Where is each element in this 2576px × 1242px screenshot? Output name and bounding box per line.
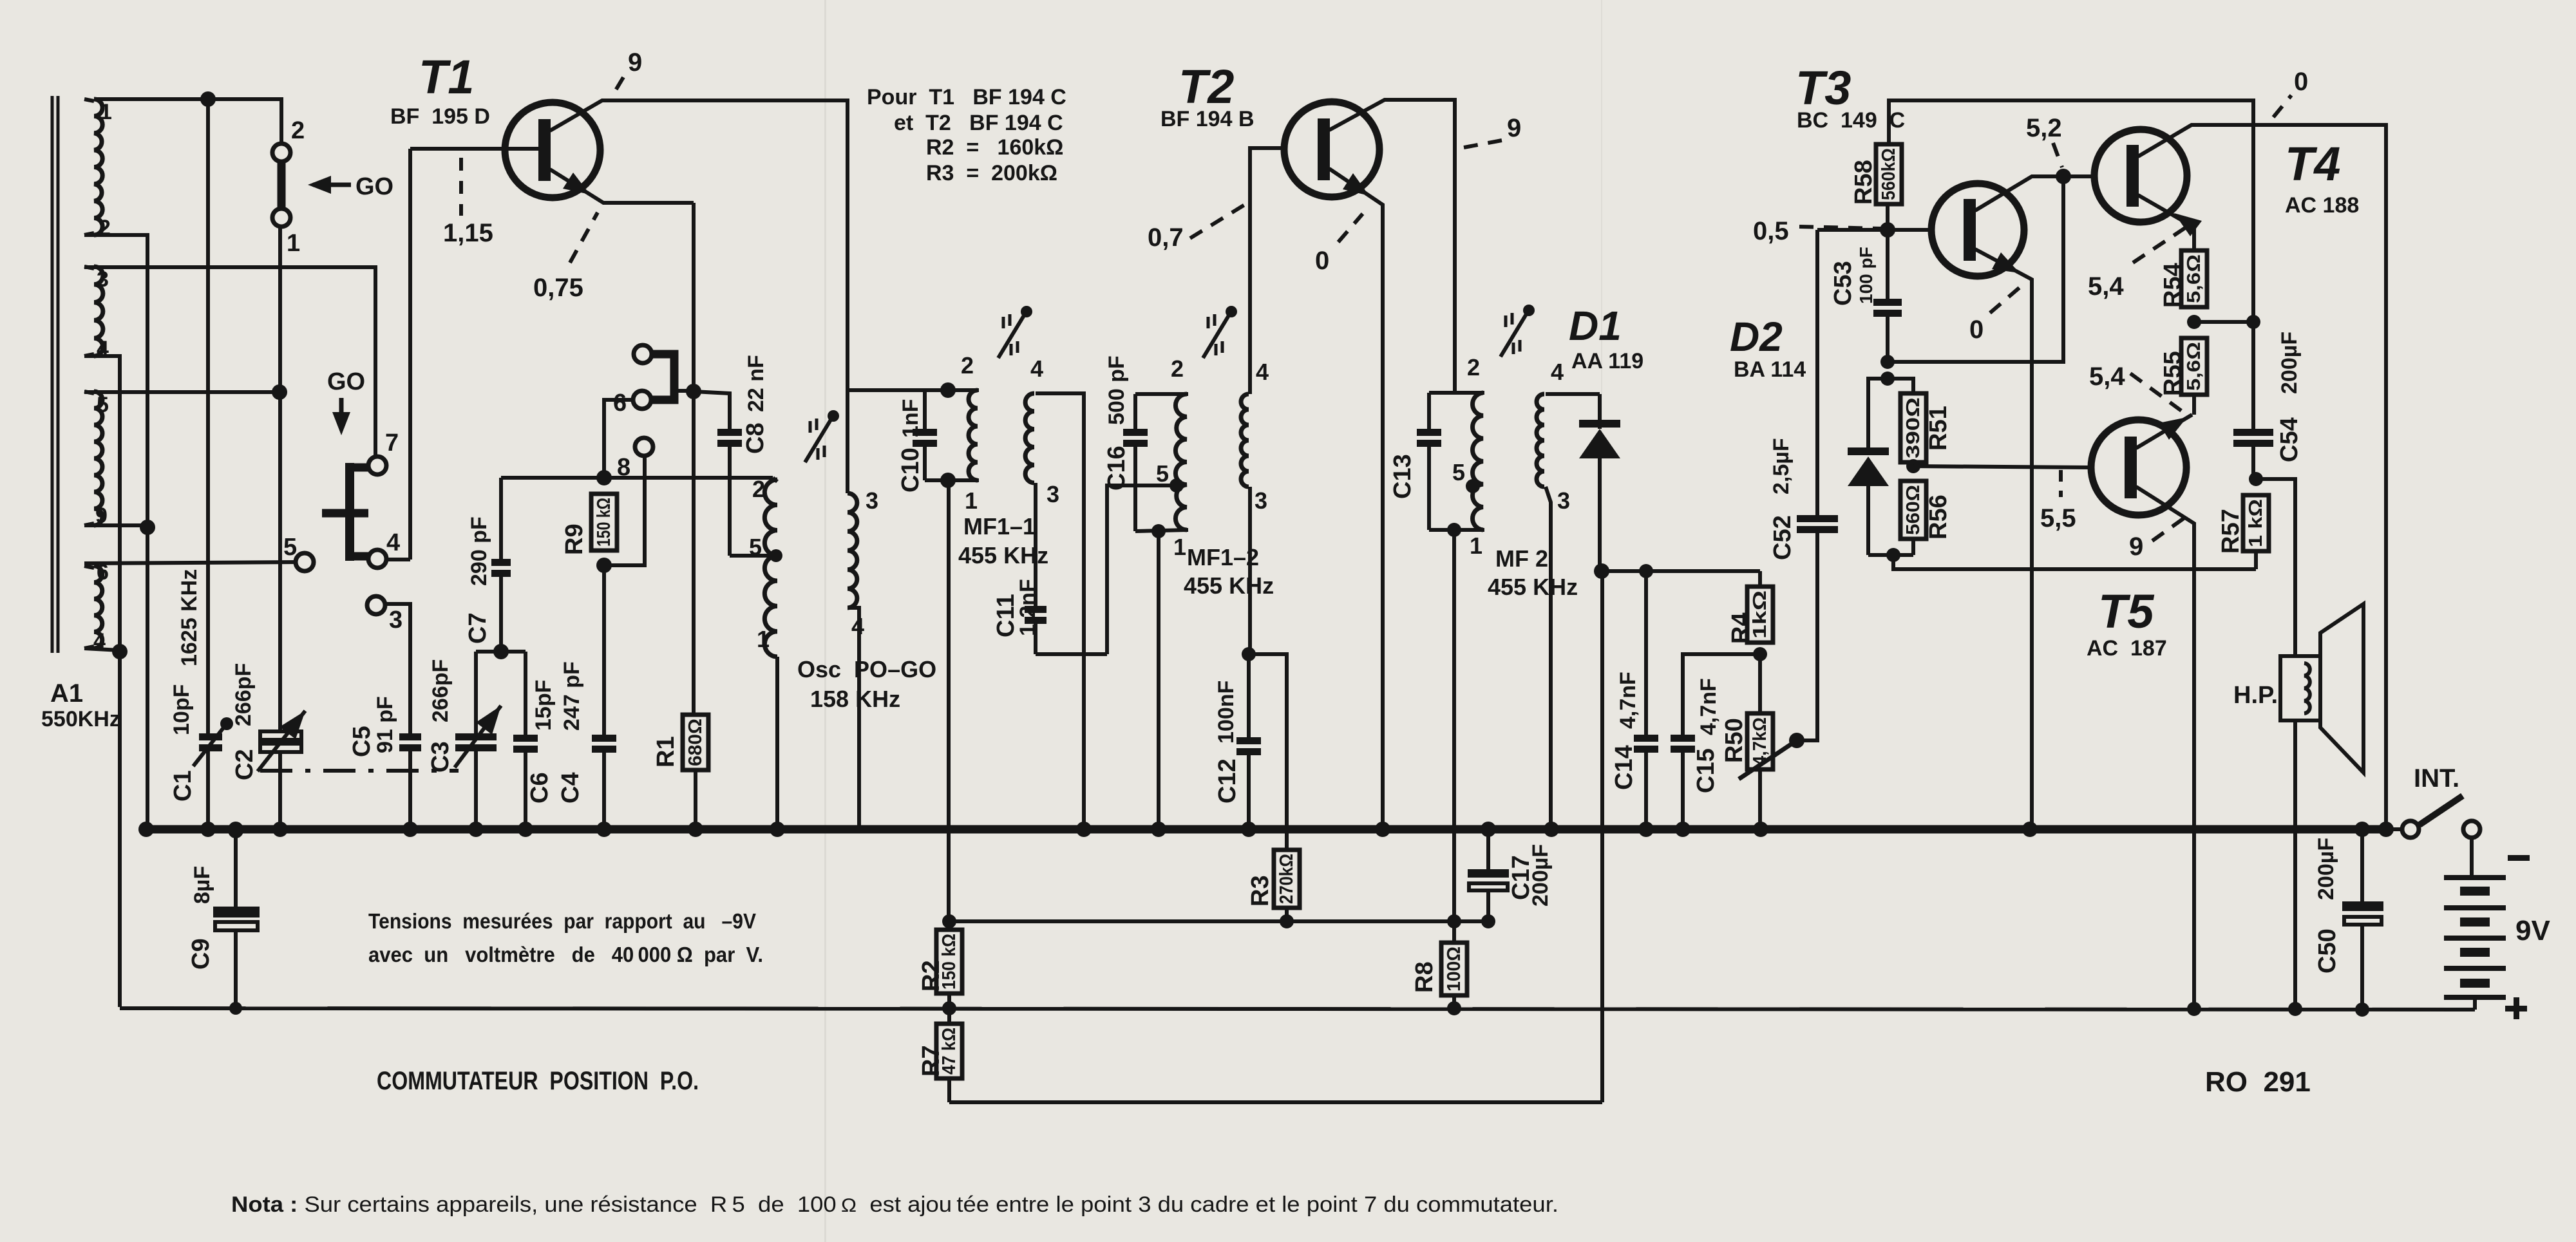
T5 collector wire [2136, 487, 2194, 1008]
wire osc sec bottom [848, 608, 859, 829]
wire coil5-top to node [84, 390, 279, 394]
wire R58 top rail [1889, 100, 2253, 429]
svg-text:5,4: 5,4 [2088, 272, 2124, 301]
svg-text:Tensions mesurées par rappo: Tensions mesurées par rapport au –9V [368, 909, 756, 933]
battery minus sign [2508, 855, 2530, 861]
node pin5wire-C2line [272, 384, 287, 400]
wire R7 bottom [947, 1078, 951, 1102]
resistor R51 [1900, 393, 1926, 462]
T2 emitter arrow [1343, 173, 1369, 196]
svg-text:R7: R7 [918, 1045, 945, 1077]
switch contact 7 [368, 456, 386, 475]
wire contact4 to T1 base line [386, 558, 410, 561]
bus dot C4 [596, 822, 612, 837]
node D1 bottom [1594, 563, 1609, 579]
transformer MF1_1 primary [969, 390, 978, 480]
node C17 bottom [1481, 914, 1495, 928]
wire rail to MF1_1 top [848, 388, 979, 392]
svg-text:C50: C50 [2314, 928, 2341, 974]
node D2 top link [1880, 372, 1895, 386]
node MF2 pin1 [1447, 523, 1461, 537]
svg-text:270kΩ: 270kΩ [1276, 854, 1297, 904]
capacitor C54 [2233, 429, 2273, 436]
bus dot C2 [272, 822, 288, 837]
wire mid to C54 rail [2194, 320, 2253, 324]
svg-text:266pF: 266pF [231, 663, 256, 726]
wire coil1-bottom down [84, 235, 147, 527]
battery 9V cells [2444, 875, 2506, 880]
svg-text:MF 2: MF 2 [1495, 545, 1548, 572]
node R2 top [942, 914, 956, 928]
svg-text:C2: C2 [231, 749, 258, 780]
resistor R55 [2181, 338, 2207, 395]
rail T3-T4 top [1886, 204, 1889, 230]
wire R8 bottom [1452, 995, 1456, 1008]
capacitor C2 plates [260, 731, 301, 740]
antenna A1 bar [51, 96, 54, 653]
transistor T2 [1284, 102, 1379, 197]
capacitor C16 [1133, 394, 1137, 429]
wire C6 to bus [524, 752, 527, 829]
node C9 bus [228, 823, 243, 838]
osc secondary coil [848, 493, 857, 608]
wire T5 base [1913, 466, 2091, 467]
svg-text:6: 6 [613, 390, 627, 417]
MF2 adjust symbol [1501, 314, 1526, 357]
svg-text:R1: R1 [652, 736, 679, 767]
wire MF1_1 sec bottom to C11 [1034, 483, 1037, 606]
svg-text:C3: C3 [427, 741, 454, 773]
svg-text:5,4: 5,4 [2089, 362, 2125, 391]
wire C14 bus [1644, 752, 1648, 829]
svg-text:150 kΩ: 150 kΩ [594, 498, 614, 547]
wire C53 [1886, 230, 1889, 299]
wire node down to bus end [146, 527, 149, 827]
transistor T1 [505, 102, 600, 198]
node R8 top [1447, 914, 1461, 928]
svg-text:4,7nF: 4,7nF [1616, 672, 1640, 729]
bus dot R1 [688, 822, 703, 837]
node T5 coll bottom [2187, 1002, 2201, 1016]
wire osc tap to C8 [730, 554, 776, 558]
svg-text:GO: GO [355, 173, 393, 200]
MF1_1 adjust symbol [998, 315, 1024, 358]
wire bracket to emitter node [674, 389, 694, 393]
T2 emitter wire [1329, 169, 1383, 829]
wire MF2 bottom [1429, 528, 1484, 532]
wire C12 to bus [1247, 755, 1251, 829]
bus dot C11 [1076, 822, 1092, 837]
svg-text:5,2: 5,2 [2026, 114, 2062, 142]
svg-text:T5: T5 [2098, 585, 2155, 638]
wire C14 [1644, 571, 1648, 735]
node T3 base [1880, 222, 1895, 238]
bus rail -9V [145, 825, 2391, 834]
node C54 rail [2246, 315, 2260, 329]
capacitor C52 [1797, 515, 1838, 522]
svg-text:290 pF: 290 pF [467, 516, 491, 586]
resistor R56 [1900, 481, 1926, 539]
wire MF2 pin1 down [1452, 530, 1456, 921]
svg-text:R57: R57 [2217, 509, 2244, 554]
transformer MF1_1 secondary [1025, 393, 1034, 483]
T1 base wire [410, 147, 538, 151]
transistor T5 [2091, 420, 2186, 515]
node R54-R55 [2187, 315, 2201, 329]
svg-text:8µF: 8µF [190, 866, 214, 904]
svg-text:247 pF: 247 pF [560, 661, 584, 731]
svg-text:C14: C14 [1611, 745, 1638, 790]
wire T1 emitter down [692, 203, 696, 715]
switch contact 1 [272, 209, 290, 227]
svg-text:T1: T1 [419, 50, 474, 104]
node R9 bottom [596, 558, 612, 573]
svg-text:4: 4 [386, 529, 400, 556]
capacitor C4 [592, 735, 616, 742]
svg-text:266pF: 266pF [428, 659, 453, 722]
svg-text:C9: C9 [187, 938, 214, 970]
svg-text:R58: R58 [1850, 160, 1877, 205]
wire C15 bus [1681, 752, 1685, 829]
svg-text:4: 4 [1256, 359, 1269, 385]
wire C5 to bus [408, 751, 412, 829]
svg-text:200µF: 200µF [1528, 844, 1553, 907]
T3 base wire [1888, 228, 1933, 232]
wire R4 top [1758, 571, 1762, 587]
svg-text:15pF: 15pF [531, 680, 556, 731]
node R51-R56 [1906, 459, 1920, 473]
wire C15 jog [1683, 654, 1760, 735]
wire R2-R7 [947, 993, 951, 1024]
wire R3 bottom [1285, 908, 1289, 921]
bus end left [138, 822, 154, 837]
svg-text:Nota : Sur certains appareils,: Nota : Sur certains appareils, une résis… [231, 1192, 1558, 1217]
T1 emitter wire [550, 169, 694, 203]
coupling dash-dot line [260, 769, 459, 773]
osc primary coil [764, 480, 777, 657]
node pin6line-joins [596, 470, 612, 485]
bus dot MF2 sec [1544, 822, 1559, 837]
resistor R50 pot [1747, 713, 1773, 769]
T4 emitter wire [2138, 195, 2194, 250]
svg-text:et T2 BF 194 C: et T2 BF 194 C [894, 111, 1063, 135]
GO arrow left [313, 183, 351, 187]
MF1_2 adjust symbol [1203, 315, 1229, 358]
capacitor C10 [923, 390, 927, 429]
wire C3 to bus [474, 751, 478, 829]
T3 emitter arrow [1992, 252, 2020, 273]
bus dot C6 [518, 822, 533, 837]
wire coil4b to node [84, 648, 120, 650]
svg-text:200µF: 200µF [2314, 838, 2338, 900]
svg-text:1: 1 [100, 100, 112, 124]
svg-text:R2 = 160kΩ: R2 = 160kΩ [926, 135, 1063, 160]
svg-text:BF 195 D: BF 195 D [390, 104, 490, 129]
switch INT contact [2402, 821, 2419, 838]
svg-text:3: 3 [1557, 487, 1570, 514]
switch INT lever [2420, 796, 2463, 825]
wire C1 branch vertical [206, 99, 210, 733]
wire AGC to R7 [949, 1100, 1602, 1104]
svg-text:560Ω: 560Ω [1903, 485, 1924, 535]
bus dot R50 [1753, 822, 1768, 837]
svg-text:D1: D1 [1569, 303, 1622, 349]
svg-text:7: 7 [385, 429, 399, 456]
capacitor C53 [1873, 299, 1902, 306]
svg-text:0: 0 [2294, 68, 2308, 96]
svg-text:455 KHz: 455 KHz [1488, 574, 1578, 600]
svg-text:5: 5 [1156, 460, 1169, 487]
wire out to speaker [2256, 479, 2295, 656]
svg-text:100 pF: 100 pF [1856, 247, 1876, 304]
wire T2 base [1250, 148, 1284, 394]
node MF1_2 pin5 [1170, 478, 1184, 493]
resistor R9 [591, 494, 617, 550]
svg-text:D2: D2 [1730, 314, 1783, 360]
wire osc pin1 to bus [775, 657, 779, 829]
transistor T4 [2094, 129, 2187, 222]
svg-text:T4: T4 [2285, 137, 2340, 191]
wire R50 bottom to bus [1758, 769, 1762, 829]
node R3 bottom [1280, 914, 1294, 928]
svg-text:500 pF: 500 pF [1104, 355, 1129, 425]
capacitor C1 [199, 733, 222, 740]
wire volume AGC down [1600, 571, 1604, 1102]
svg-text:9: 9 [1507, 114, 1521, 142]
svg-text:C16: C16 [1103, 446, 1130, 491]
svg-text:0,5: 0,5 [1753, 217, 1789, 245]
wire R9 down to C4 [602, 565, 606, 735]
svg-text:4,7nF: 4,7nF [1696, 678, 1721, 735]
transformer MF2 secondary [1537, 394, 1544, 487]
node speaker bottom [2288, 1002, 2302, 1016]
svg-text:5,5: 5,5 [2040, 504, 2076, 532]
svg-text:5: 5 [97, 393, 109, 417]
svg-text:1,15: 1,15 [443, 219, 493, 247]
switch bracket 6 [652, 354, 674, 400]
node C9 bottom [229, 1002, 242, 1015]
wire B emitter rail [1893, 555, 2256, 569]
wire C2 branch vertical [278, 227, 282, 733]
node R50 wiper [1789, 733, 1804, 748]
svg-text:T3: T3 [1795, 61, 1851, 115]
svg-text:9: 9 [2129, 532, 2143, 561]
capacitor C7 [491, 559, 511, 566]
wire C10bot-R2 [947, 921, 951, 930]
node R2-R7 [942, 1001, 956, 1015]
svg-text:Pour T1 BF 194 C: Pour T1 BF 194 C [867, 85, 1066, 109]
wire T1 base vertical [408, 149, 412, 560]
node T4 base [2056, 169, 2071, 184]
node MF1_1 top [940, 382, 956, 398]
capacitor C17 [1486, 829, 1490, 869]
T3 emitter wire [1975, 249, 2032, 829]
node C50 bottom [2355, 1002, 2369, 1017]
svg-text:C12: C12 [1214, 758, 1241, 804]
wire node to R3 [1249, 654, 1287, 850]
svg-text:1: 1 [287, 230, 300, 257]
svg-text:C10: C10 [897, 447, 924, 493]
svg-text:R55: R55 [2159, 351, 2186, 396]
wire pin8-C7-osc horizontal [501, 476, 773, 480]
wire T3 base left to C52 [1817, 228, 1888, 232]
svg-text:3: 3 [1046, 481, 1059, 507]
svg-text:22 nF: 22 nF [744, 355, 768, 412]
svg-text:1: 1 [1470, 532, 1482, 559]
resistor R1 [683, 715, 708, 770]
svg-text:AC 187: AC 187 [2087, 636, 2167, 661]
svg-text:BA 114: BA 114 [1734, 357, 1806, 382]
battery top contact [2463, 821, 2480, 838]
resistor R2 [936, 930, 962, 993]
wire R4-R50 [1758, 654, 1762, 713]
wire MF1_2 sec bottom [1248, 487, 1252, 654]
capacitor C3 arrow [455, 706, 501, 767]
svg-text:3: 3 [389, 607, 402, 634]
svg-text:C1: C1 [169, 770, 196, 802]
switch contact 3 [367, 596, 385, 614]
svg-text:0: 0 [1969, 315, 1984, 344]
svg-text:A1: A1 [50, 679, 83, 708]
wire MF1_2 pin1 to bus [1157, 531, 1160, 829]
node MF2 pin5 [1466, 479, 1480, 493]
wire +9V bottom [120, 1008, 2475, 1010]
svg-text:9: 9 [628, 48, 642, 77]
resistor R3 [1274, 850, 1300, 908]
transistor T3 [1931, 183, 2024, 276]
svg-text:C4: C4 [557, 772, 584, 804]
capacitor C14 [1634, 735, 1658, 742]
svg-text:R4: R4 [1727, 612, 1754, 644]
svg-text:C7: C7 [464, 612, 491, 644]
svg-text:Osc PO–GO: Osc PO–GO [797, 656, 936, 682]
bus dot C17 [1481, 822, 1496, 837]
svg-text:T2: T2 [1179, 60, 1234, 113]
capacitor C6 [513, 735, 538, 742]
svg-text:1nF: 1nF [898, 399, 923, 438]
bus dot C5 [402, 822, 418, 837]
svg-text:5,6Ω: 5,6Ω [2184, 254, 2204, 303]
diode D1 [1598, 394, 1602, 429]
osc adjust symbol [805, 420, 831, 462]
wire MF2 sec top to D1 [1546, 392, 1600, 396]
wire D2 bottom joins [1868, 553, 1913, 557]
svg-text:200µF: 200µF [2277, 332, 2302, 394]
svg-text:2: 2 [1467, 354, 1480, 381]
svg-text:avec un voltmètre de 40: avec un voltmètre de 40 000 Ω par V. [368, 943, 763, 966]
wire MF1_1 bottom to R2 [947, 480, 951, 921]
svg-text:10pF: 10pF [169, 684, 194, 735]
capacitor C2 arrow [258, 711, 305, 771]
wire R57 bottom [2254, 551, 2258, 569]
T3 collector wire [1975, 176, 2094, 211]
switch contact 4 [368, 550, 386, 568]
wire C53 loop to T4base [1888, 176, 2063, 362]
svg-text:0,7: 0,7 [1148, 223, 1184, 252]
resistor R57 [2243, 495, 2269, 551]
wire bus to switch [2391, 827, 2402, 831]
svg-text:3: 3 [97, 267, 109, 292]
antenna coil A1 section 5-9 [94, 391, 102, 525]
node C53 bottom [1880, 355, 1895, 369]
svg-text:3: 3 [1255, 487, 1267, 514]
bus dot T2 emitter [1375, 822, 1390, 837]
svg-text:R8: R8 [1411, 961, 1438, 993]
svg-text:4: 4 [1030, 355, 1043, 382]
svg-text:C11: C11 [992, 594, 1019, 637]
svg-text:5,6Ω: 5,6Ω [2184, 342, 2204, 391]
switch contact 6 [633, 391, 651, 409]
svg-text:C54: C54 [2276, 417, 2303, 462]
svg-text:455 KHz: 455 KHz [1184, 572, 1274, 599]
wire battery bottom [2473, 995, 2477, 1010]
wire R55 to T5 [2192, 395, 2196, 415]
capacitor C15 [1671, 735, 1695, 742]
T5 emitter wire top [2136, 415, 2192, 448]
wire C12 [1247, 654, 1251, 737]
svg-text:INT.: INT. [2414, 764, 2459, 793]
switch contact top [634, 345, 652, 363]
node T1 emitter - C8 [686, 384, 701, 399]
capacitor C12 [1236, 737, 1261, 744]
resistor R58 [1876, 144, 1902, 204]
capacitor C8 [717, 429, 742, 436]
T1 collector wire [550, 100, 848, 493]
bus dot C15 [1675, 822, 1690, 837]
bus dot C3 [468, 822, 484, 837]
switch bar 1-2 [278, 163, 286, 207]
wire C16 top [1135, 392, 1188, 396]
svg-text:2,5µF: 2,5µF [1769, 438, 1794, 494]
wire AVC [949, 919, 1488, 923]
svg-text:2: 2 [1171, 355, 1184, 382]
svg-text:455 KHz: 455 KHz [958, 542, 1048, 569]
R50 wiper arrow [1739, 740, 1797, 779]
bus dot C9 [228, 822, 243, 837]
wire C8 down to osc tap [728, 447, 732, 556]
wire C4 to bus [602, 752, 606, 829]
wire wiper to C52 [1797, 531, 1817, 740]
capacitor C3 plates [455, 733, 497, 740]
wire to MF1_2 pin5 [1107, 485, 1177, 654]
wire link to D2 [1868, 379, 1888, 420]
battery plus sign [2505, 1006, 2527, 1011]
svg-text:AC 188: AC 188 [2285, 193, 2359, 218]
wire MF1_1 sec top [1036, 393, 1084, 829]
capacitor C13 [1427, 393, 1431, 429]
node C54 bottom [2249, 472, 2263, 486]
wire MF1_2 bottom [1135, 530, 1188, 531]
svg-text:1: 1 [1173, 534, 1186, 560]
svg-text:R2: R2 [918, 960, 945, 992]
wire contact3 down to C5 [385, 604, 410, 733]
node top [200, 91, 216, 107]
svg-text:AA 119: AA 119 [1571, 349, 1643, 373]
node osc tap 5 [770, 549, 782, 562]
svg-text:C6: C6 [526, 772, 553, 804]
svg-text:R3 = 200kΩ: R3 = 200kΩ [926, 161, 1057, 185]
svg-text:560kΩ: 560kΩ [1879, 148, 1899, 200]
capacitor C5 [399, 733, 421, 740]
node wireB left [1886, 548, 1900, 562]
wire emitter node to C8 [694, 391, 730, 429]
svg-text:R3: R3 [1247, 875, 1274, 907]
node R4 bottom [1753, 647, 1767, 661]
capacitor C11 [1025, 606, 1046, 613]
resistor R7 [936, 1024, 962, 1078]
speaker cone [2320, 604, 2363, 773]
wire C13 top [1429, 391, 1484, 395]
